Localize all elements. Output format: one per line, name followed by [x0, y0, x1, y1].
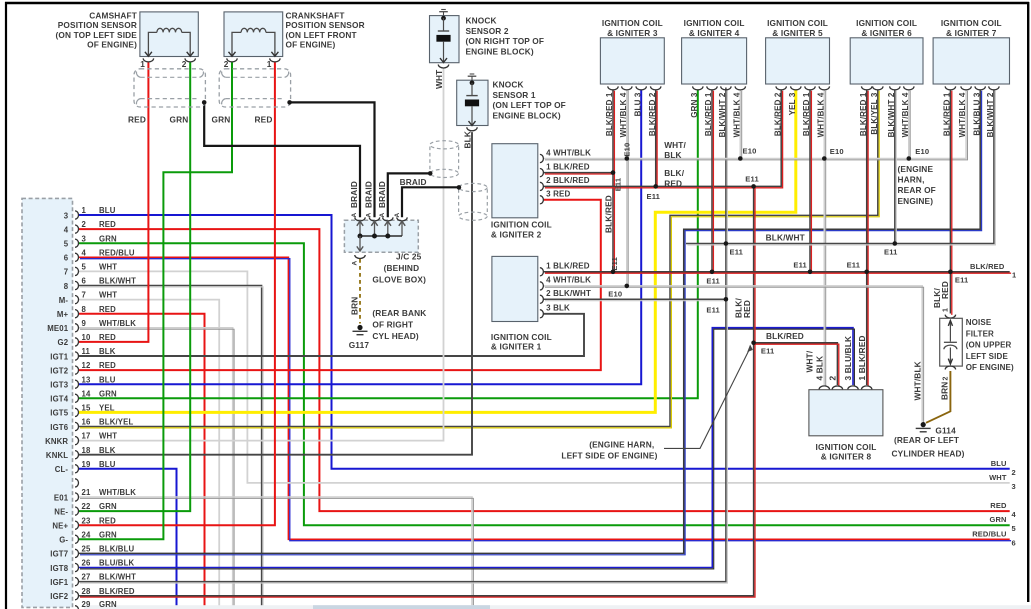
crankshaft sensor connector (dashed) — [219, 69, 290, 107]
coil7 pin BLK/BLU 3 — [975, 86, 985, 90]
ground G117 — [357, 325, 362, 330]
svg-text:1: 1 — [140, 59, 145, 69]
svg-text:1: 1 — [942, 308, 949, 312]
J/C 25 input cups — [355, 217, 365, 221]
camshaft sensor terminal cups — [143, 58, 153, 62]
shield junction knock sensor 1 — [457, 185, 462, 190]
splice E11 on E11 line coil6 — [864, 270, 869, 275]
svg-text:GLOVE BOX): GLOVE BOX) — [372, 274, 426, 284]
svg-text:RED: RED — [990, 501, 1007, 510]
svg-text:ENGINE): ENGINE) — [898, 196, 934, 206]
svg-text:& IGNITER 5: & IGNITER 5 — [772, 28, 823, 38]
page border right — [1027, 2, 1029, 602]
svg-text:LEFT SIDE OF ENGINE): LEFT SIDE OF ENGINE) — [561, 451, 657, 461]
igniter2 pin 4 WHT/BLK — [540, 154, 544, 162]
knock sensor 2 piezo element symbol — [441, 16, 446, 21]
svg-text:CAMSHAFT: CAMSHAFT — [89, 11, 137, 21]
wire pin12 RED to igniter2 pin3 — [79, 200, 601, 370]
J/C 25 output arrow — [359, 236, 361, 251]
svg-text:21: 21 — [82, 488, 91, 497]
ECM pin 13 BLU — [75, 380, 78, 388]
svg-text:OF ENGINE): OF ENGINE) — [87, 39, 137, 49]
svg-text:IGT3: IGT3 — [50, 381, 68, 390]
svg-text:RED/BLU: RED/BLU — [972, 529, 1006, 538]
svg-text:E11: E11 — [610, 256, 619, 270]
svg-text:IGNITION COIL: IGNITION COIL — [491, 220, 552, 230]
svg-text:WHT/BLK: WHT/BLK — [99, 488, 136, 497]
svg-text:BRN: BRN — [349, 297, 359, 315]
splice E10 on coil4 pin4 — [738, 156, 743, 161]
wire pin9 WHT/BLK down offpage — [79, 328, 233, 609]
coil7 pin WHT/BLK 4 — [961, 86, 971, 90]
svg-text:IGNITION COIL: IGNITION COIL — [941, 18, 1002, 28]
svg-text:E11: E11 — [955, 275, 969, 284]
svg-text:1: 1 — [82, 206, 87, 215]
coil5 pin BLK/RED 1 — [805, 86, 815, 90]
svg-text:J/C 25: J/C 25 — [396, 251, 422, 261]
crankshaft sensor terminal cups — [227, 58, 237, 61]
svg-text:CRANKSHAFT: CRANKSHAFT — [286, 11, 345, 21]
svg-text:(ON RIGHT TOP OF: (ON RIGHT TOP OF — [466, 36, 545, 46]
wire coil5 pin4 WHT/BLK vertical to coil8 pin1 — [823, 89, 825, 385]
svg-text:BLK/WHT 2: BLK/WHT 2 — [718, 92, 727, 137]
svg-text:3: 3 — [1012, 482, 1016, 491]
svg-text:BRAID: BRAID — [364, 181, 374, 208]
svg-text:BLK/RED: BLK/RED — [970, 262, 1005, 271]
svg-text:BLK/RED: BLK/RED — [603, 195, 613, 233]
wire pin26 BLU/BLK to coil8 pin3 — [79, 328, 853, 568]
svg-text:2: 2 — [82, 220, 87, 229]
splice E11 on E11 line coil3 — [611, 270, 616, 275]
svg-text:IGT5: IGT5 — [50, 409, 68, 418]
callout arrow to E11 splice — [664, 349, 750, 449]
ECM pin 5 WHT — [75, 267, 79, 275]
svg-text:WHT: WHT — [99, 291, 117, 300]
svg-text:BLU: BLU — [99, 206, 116, 215]
wire pin21 WHT/BLK down offpage — [79, 497, 472, 609]
svg-text:KNKL: KNKL — [46, 451, 68, 460]
ECM pin 21 WHT/BLK — [75, 493, 79, 501]
wire E11 net BLK/RED horizontal to right exit 1 — [544, 271, 1010, 273]
camshaft connector shield junction — [202, 100, 207, 105]
svg-text:LEFT SIDE: LEFT SIDE — [966, 352, 1009, 361]
camshaft sensor connector (dashed) — [134, 69, 205, 107]
wire pin1 BLU to right exit 2 — [79, 215, 1010, 469]
svg-text:(ENGINE: (ENGINE — [898, 164, 934, 174]
svg-text:BLK/BLU 3: BLK/BLU 3 — [972, 92, 981, 136]
wire coil7 pin1 BLK/RED vertical to noise filter — [949, 89, 951, 313]
svg-text:NE-: NE- — [54, 507, 68, 516]
ignition coil and igniter 7 box — [933, 38, 1009, 84]
ECM pin 19 BLU — [75, 465, 78, 473]
svg-text:A: A — [352, 261, 359, 266]
svg-text:E11: E11 — [730, 248, 744, 257]
svg-text:& IGNITER 3: & IGNITER 3 — [607, 28, 658, 38]
svg-text:IGNITION COIL: IGNITION COIL — [856, 18, 917, 28]
crankshaft position sensor box — [224, 12, 283, 57]
svg-text:RED: RED — [99, 333, 116, 342]
svg-text:E10: E10 — [743, 147, 757, 156]
svg-text:G114: G114 — [935, 426, 956, 436]
coil3 pin BLK/RED 2 — [651, 86, 661, 90]
coil5 pin YEL 3 — [791, 86, 801, 90]
svg-text:OF ENGINE): OF ENGINE) — [286, 39, 336, 49]
coil4 pin GRN 3 — [693, 86, 703, 90]
svg-text:OF ENGINE): OF ENGINE) — [966, 363, 1014, 372]
svg-text:GRN: GRN — [212, 114, 231, 124]
coil7 pin BLK/WHT 2 — [989, 86, 999, 89]
svg-text:IGNITION COIL: IGNITION COIL — [491, 332, 552, 342]
svg-text:GRN: GRN — [99, 389, 117, 398]
svg-text:27: 27 — [82, 573, 91, 582]
svg-text:IGT4: IGT4 — [50, 395, 68, 404]
ECM pin 14 GRN — [75, 394, 78, 402]
bottom scrollbar thumb — [313, 605, 490, 609]
svg-text:BLU 3: BLU 3 — [633, 92, 642, 116]
svg-text:28: 28 — [82, 587, 91, 596]
ECM pin 3 GRN — [75, 239, 78, 247]
svg-text:(REAR BANK: (REAR BANK — [372, 308, 426, 318]
svg-text:3 BLK: 3 BLK — [546, 304, 570, 313]
svg-text:5: 5 — [64, 240, 69, 249]
wire knock sensor 2 shield braid to J/C 25 — [388, 173, 430, 217]
ECM pin 22 GRN — [75, 507, 79, 515]
wire camshaft connector shield to J/C 25 — [204, 102, 360, 217]
svg-text:FILTER: FILTER — [966, 329, 994, 338]
shield symbol around knock sensor 1 wire — [459, 183, 488, 191]
coil6 pin WHT/BLK 4 — [904, 86, 914, 90]
svg-text:A: A — [366, 213, 373, 218]
svg-text:IGF1: IGF1 — [50, 578, 68, 587]
ECM pin 4 RED/BLU — [75, 253, 78, 261]
svg-text:E10: E10 — [608, 290, 622, 299]
igniter1 pin 3 BLK — [540, 310, 543, 318]
svg-text:3: 3 — [82, 234, 87, 243]
knock sensor 2 case ground symbol — [441, 9, 446, 11]
ECM pin 11 BLK — [75, 352, 79, 360]
svg-text:BLK/RED 1: BLK/RED 1 — [943, 92, 952, 136]
svg-text:10: 10 — [82, 333, 91, 342]
ECM pin 8 RED — [75, 310, 78, 318]
svg-text:E11: E11 — [706, 277, 720, 286]
svg-text:4 BLK: 4 BLK — [814, 356, 824, 381]
page border top — [5, 2, 1029, 4]
coil3 pin BLU 3 — [636, 86, 646, 90]
svg-text:& IGNITER 6: & IGNITER 6 — [861, 28, 912, 38]
svg-text:RED: RED — [664, 178, 682, 188]
svg-text:2: 2 — [942, 376, 949, 380]
svg-text:RED: RED — [940, 281, 950, 299]
svg-text:7: 7 — [82, 291, 87, 300]
svg-text:E11: E11 — [647, 192, 661, 201]
splice E11 igniter1 pin2 — [724, 297, 729, 302]
svg-text:IGT2: IGT2 — [50, 366, 68, 375]
svg-text:A: A — [379, 213, 386, 218]
svg-text:WHT/BLK 4: WHT/BLK 4 — [958, 92, 967, 137]
svg-text:& IGNITER 7: & IGNITER 7 — [946, 28, 997, 38]
wire pin16 BLK/YEL to coil6 pin3 — [79, 89, 878, 426]
wire knock sensor 1 shield braid to J/C 25 — [402, 187, 459, 217]
svg-text:BLK/RED 1: BLK/RED 1 — [704, 92, 713, 136]
svg-text:BLK/RED: BLK/RED — [99, 587, 135, 596]
svg-text:BLK/RED: BLK/RED — [766, 331, 804, 341]
wire BLK/WHT net to coil7 pin2 — [686, 89, 994, 243]
splice E11 BLK/WHT net coil6 — [893, 241, 898, 246]
svg-text:CYL HEAD): CYL HEAD) — [372, 331, 418, 341]
svg-text:RED: RED — [255, 114, 273, 124]
coil8 terminal cup — [819, 386, 829, 390]
svg-text:M+: M+ — [57, 310, 69, 319]
svg-text:5: 5 — [82, 263, 87, 272]
wire coil3 pin1 BLK/RED vertical — [612, 89, 614, 271]
wire pin13 BLU to coil3 pin3 — [79, 89, 642, 384]
svg-text:2: 2 — [224, 59, 229, 69]
bottom scrollbar track — [84, 605, 1031, 609]
splice E10 on coil5 pin4 — [822, 156, 827, 161]
splice E11 on E11 line coil4 — [710, 270, 715, 275]
svg-text:& IGNITER 1: & IGNITER 1 — [491, 342, 542, 352]
wire coil3 pin2 BLK/RED vertical — [655, 89, 657, 186]
ignition coil and igniter 3 box — [600, 38, 664, 84]
wire camshaft sensor pin2 GRN to ECM pin22 — [79, 62, 191, 511]
coil8 terminal cup — [832, 386, 842, 389]
coil6 pin BLK/YEL 3 — [873, 86, 883, 90]
svg-text:6: 6 — [82, 277, 87, 286]
svg-text:WHT: WHT — [99, 263, 117, 272]
svg-text:BRAID: BRAID — [349, 181, 359, 208]
wire coil4 pin1 BLK/RED vertical — [711, 89, 713, 271]
svg-text:YEL: YEL — [99, 404, 115, 413]
splice E11 on E11 line coil7 — [948, 270, 953, 275]
knock sensor 1 piezo element symbol — [470, 80, 475, 85]
svg-text:3 BLU/BLK: 3 BLU/BLK — [843, 336, 853, 381]
svg-text:WHT: WHT — [989, 473, 1007, 482]
wire coil6 pin4 WHT/BLK vertical — [908, 89, 910, 158]
svg-text:IGT8: IGT8 — [50, 564, 68, 573]
svg-text:BLK: BLK — [463, 131, 473, 149]
wire crankshaft connector shield to J/C 25 — [290, 102, 375, 217]
page border left — [5, 2, 7, 609]
svg-text:26: 26 — [82, 559, 91, 568]
svg-text:E11: E11 — [745, 174, 759, 183]
svg-text:E10: E10 — [915, 147, 929, 156]
igniter1 pin 1 BLK/RED — [540, 268, 544, 276]
wire pin28 BLK/RED up to E11 splice — [79, 186, 754, 595]
svg-text:G117: G117 — [349, 340, 370, 350]
wire pin17 WHT to knock sensor 2 — [79, 68, 444, 440]
svg-text:1 BLK/RED: 1 BLK/RED — [857, 335, 867, 380]
coil5 pin BLK/RED 2 — [776, 86, 786, 90]
svg-text:BLK/YEL: BLK/YEL — [99, 418, 133, 427]
svg-text:16: 16 — [82, 418, 91, 427]
svg-text:& IGNITER 2: & IGNITER 2 — [491, 229, 542, 239]
knock sensor 1 case ground symbol — [470, 73, 475, 75]
svg-text:CYLINDER HEAD): CYLINDER HEAD) — [892, 449, 965, 459]
wire pin6 BLK/WHT down offpage — [79, 286, 262, 609]
svg-text:SENSOR 2: SENSOR 2 — [466, 26, 509, 36]
svg-text:BLK/WHT 2: BLK/WHT 2 — [887, 92, 896, 137]
svg-text:RED: RED — [99, 361, 116, 370]
ignition coil and igniter 1 box — [492, 256, 538, 321]
svg-text:E11: E11 — [706, 305, 720, 314]
svg-text:(ON UPPER: (ON UPPER — [966, 341, 1012, 350]
knock sensor 2 terminal cup — [438, 65, 448, 69]
svg-text:13: 13 — [82, 375, 91, 384]
svg-text:GRN: GRN — [99, 502, 117, 511]
svg-text:WHT/BLK 4: WHT/BLK 4 — [619, 92, 628, 137]
splice E11 to coil8 — [751, 341, 756, 346]
svg-text:& IGNITER 4: & IGNITER 4 — [689, 28, 740, 38]
svg-text:IGNITION COIL: IGNITION COIL — [602, 18, 663, 28]
svg-text:CL-: CL- — [55, 465, 69, 474]
svg-text:WHT/BLK: WHT/BLK — [99, 319, 136, 328]
svg-text:BLK/WHT: BLK/WHT — [99, 573, 136, 582]
svg-text:WHT/BLK 4: WHT/BLK 4 — [901, 92, 910, 137]
svg-text:G-: G- — [59, 536, 68, 545]
ECM connector box — [22, 198, 73, 607]
svg-text:WHT: WHT — [434, 70, 444, 89]
splice E10 igniter1 pin4 — [625, 284, 630, 289]
ECM pin 20 — [75, 479, 79, 487]
svg-text:4: 4 — [82, 248, 87, 257]
svg-text:NE+: NE+ — [52, 522, 68, 531]
igniter2 pin 1 BLK/RED — [540, 169, 544, 177]
wire camshaft sensor pin1 RED to ECM pin10 — [79, 62, 149, 342]
coil3 pin BLK/RED 1 — [608, 86, 618, 90]
svg-text:E11: E11 — [761, 347, 775, 356]
svg-text:24: 24 — [82, 530, 91, 539]
svg-text:M-: M- — [59, 296, 69, 305]
svg-text:GRN: GRN — [989, 515, 1006, 524]
coil8 terminal cup — [848, 386, 858, 390]
svg-text:IGT1: IGT1 — [50, 352, 68, 361]
svg-text:E11: E11 — [847, 260, 861, 269]
knock sensor 2 box — [430, 16, 460, 63]
svg-text:WHT: WHT — [99, 432, 117, 441]
svg-text:6: 6 — [64, 254, 69, 263]
shield junction knock sensor 2 — [428, 171, 433, 176]
svg-text:KNKR: KNKR — [45, 437, 68, 446]
wire pin5 WHT to right exit 3 — [79, 271, 1010, 483]
splice E11 BLK/WHT net coil4 — [724, 241, 729, 246]
ECM pin 7 WHT — [75, 296, 79, 304]
svg-text:GRN 3: GRN 3 — [690, 92, 699, 118]
wire pin18 BLK to knock sensor 1 — [79, 132, 472, 455]
svg-text:1 BLK/RED: 1 BLK/RED — [546, 262, 590, 271]
noise filter box — [940, 318, 963, 366]
svg-text:BLK/BLU: BLK/BLU — [99, 545, 134, 554]
coil3 pin WHT/BLK 4 — [622, 86, 632, 90]
wire pin8 RED down offpage — [79, 314, 205, 609]
ignition coil and igniter 2 box — [492, 144, 538, 218]
igniter1 pin 2 BLK/WHT — [540, 295, 543, 303]
svg-text:22: 22 — [82, 502, 91, 511]
svg-text:4: 4 — [1012, 510, 1017, 519]
svg-text:E11: E11 — [793, 260, 807, 269]
svg-text:POSITION SENSOR: POSITION SENSOR — [58, 20, 137, 30]
ECM pin 2 RED — [75, 225, 78, 233]
svg-text:REAR OF: REAR OF — [898, 185, 936, 195]
svg-text:19: 19 — [82, 460, 91, 469]
svg-text:(REAR OF LEFT: (REAR OF LEFT — [894, 435, 959, 445]
svg-text:BLK/: BLK/ — [664, 168, 685, 178]
svg-text:WHT/BLK 4: WHT/BLK 4 — [732, 92, 741, 137]
ECM pin 18 BLK — [75, 451, 78, 459]
wire coil6 pin1 BLK/RED vertical to coil8 pin4 — [866, 89, 868, 385]
svg-text:23: 23 — [82, 516, 91, 525]
camshaft position sensor box — [140, 12, 198, 57]
wire pin4 RED/BLU to right exit 6 — [79, 257, 1010, 539]
svg-text:A: A — [394, 213, 401, 218]
ECM pin 15 YEL — [75, 408, 79, 416]
svg-text:SENSOR 1: SENSOR 1 — [493, 90, 536, 100]
splice E11 coil3 pin2 — [653, 184, 658, 189]
wire BRN shield drain to G117 — [359, 259, 361, 324]
noise filter capacitor symbol — [949, 320, 951, 342]
svg-text:GRN: GRN — [99, 600, 117, 609]
crankshaft sensor coil symbol — [232, 32, 241, 56]
svg-text:5: 5 — [1012, 524, 1016, 533]
svg-text:BLU: BLU — [991, 459, 1007, 468]
svg-text:WHT/BLK: WHT/BLK — [913, 361, 923, 400]
splice E10 on coil3 pin4 — [625, 156, 630, 161]
ECM pin 28 BLK/RED — [75, 592, 79, 600]
svg-text:18: 18 — [82, 446, 91, 455]
svg-text:2 BLK/WHT: 2 BLK/WHT — [546, 289, 591, 298]
noise filter pin 1 cup — [945, 315, 955, 318]
ground G114 — [921, 422, 926, 427]
svg-text:IGNITION COIL: IGNITION COIL — [767, 18, 828, 28]
wire igniter1 pin2 BLK/WHT to E11 splice — [544, 298, 726, 300]
wire igniter2 pin2 BLK/RED E11 line to coil5 pin2 — [544, 89, 782, 186]
svg-text:(ON TOP LEFT SIDE: (ON TOP LEFT SIDE — [55, 30, 137, 40]
svg-text:8: 8 — [64, 282, 69, 291]
svg-text:WHT/BLK 4: WHT/BLK 4 — [816, 92, 825, 137]
crankshaft connector shield junction — [287, 100, 292, 105]
ignition coil and igniter 8 box — [809, 390, 883, 436]
svg-text:ENGINE BLOCK): ENGINE BLOCK) — [466, 46, 534, 56]
svg-text:BLK/RED 1: BLK/RED 1 — [802, 92, 811, 136]
svg-text:25: 25 — [82, 545, 91, 554]
wire BRN noise filter to G114 — [926, 371, 950, 423]
svg-text:BLK/RED 2: BLK/RED 2 — [648, 92, 657, 136]
ECM pin 1 BLU — [75, 211, 79, 219]
svg-text:BLK/WHT: BLK/WHT — [766, 233, 805, 243]
svg-text:BLK: BLK — [664, 150, 682, 160]
svg-text:BLU: BLU — [99, 460, 116, 469]
svg-text:OF RIGHT: OF RIGHT — [372, 320, 413, 330]
svg-text:RED: RED — [99, 516, 116, 525]
svg-text:2: 2 — [1012, 468, 1016, 477]
svg-text:& IGNITER 8: & IGNITER 8 — [821, 452, 872, 462]
svg-text:15: 15 — [82, 404, 91, 413]
svg-text:HARN,: HARN, — [898, 175, 925, 185]
svg-text:9: 9 — [82, 319, 87, 328]
svg-text:YEL 3: YEL 3 — [788, 92, 797, 115]
wire coil3 pin4 WHT/BLK vertical — [626, 89, 628, 286]
wire pin19 BLU down offpage — [79, 469, 177, 609]
svg-text:WHT/: WHT/ — [805, 350, 815, 372]
igniter1 pin 4 WHT/BLK — [540, 282, 544, 290]
svg-text:RED: RED — [99, 220, 116, 229]
svg-text:14: 14 — [82, 389, 91, 398]
coil4 pin BLK/RED 1 — [707, 86, 717, 90]
svg-text:4 WHT/BLK: 4 WHT/BLK — [546, 148, 591, 157]
J/C 25 internal up arrows and bus — [359, 221, 361, 236]
ECM pin 24 GRN — [75, 535, 79, 543]
svg-text:4: 4 — [64, 225, 69, 234]
J/C 25 box — [344, 220, 418, 252]
